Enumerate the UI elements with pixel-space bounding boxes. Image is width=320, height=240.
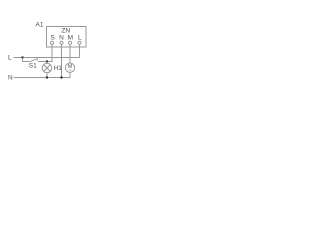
svg-text:ZN: ZN	[61, 27, 70, 34]
svg-text:L: L	[8, 55, 12, 62]
wire from terminal S down and left to switch output	[38, 44, 52, 61]
wire from terminal N down to N rail	[61, 44, 63, 77]
svg-text:M: M	[68, 35, 73, 42]
wire junction down to lamp	[46, 62, 48, 64]
wire from terminal L down to L rail	[79, 44, 81, 57]
svg-text:N: N	[59, 35, 64, 42]
junction node lamp on N rail	[46, 76, 48, 78]
wire from L rail junction down to switch input	[23, 58, 30, 62]
terminal circle M	[68, 41, 71, 44]
svg-text:A1: A1	[36, 21, 44, 28]
L rail	[14, 57, 80, 59]
svg-text:S: S	[50, 35, 55, 42]
switch S1 contact tick	[36, 58, 38, 60]
lamp H1 cross	[44, 65, 51, 72]
junction node terminal N on N rail	[60, 76, 62, 78]
terminal circle S	[50, 41, 53, 44]
svg-text:H1: H1	[54, 65, 63, 72]
terminal circle L	[78, 41, 81, 44]
wire from terminal M down to motor	[69, 44, 71, 63]
terminal circle N	[60, 41, 63, 44]
junction node on L rail	[21, 56, 23, 58]
svg-text:L: L	[78, 35, 82, 42]
device box A1	[47, 27, 87, 48]
wire motor down to N rail corner	[14, 72, 71, 77]
junction node switch output / lamp	[46, 60, 48, 62]
lamp H1 circle	[42, 63, 52, 73]
motor M1 circle	[65, 63, 74, 72]
switch S1 blade	[30, 59, 38, 62]
svg-text:S1: S1	[29, 63, 37, 70]
wire lamp down to N rail	[46, 73, 48, 78]
svg-text:N: N	[8, 74, 13, 81]
